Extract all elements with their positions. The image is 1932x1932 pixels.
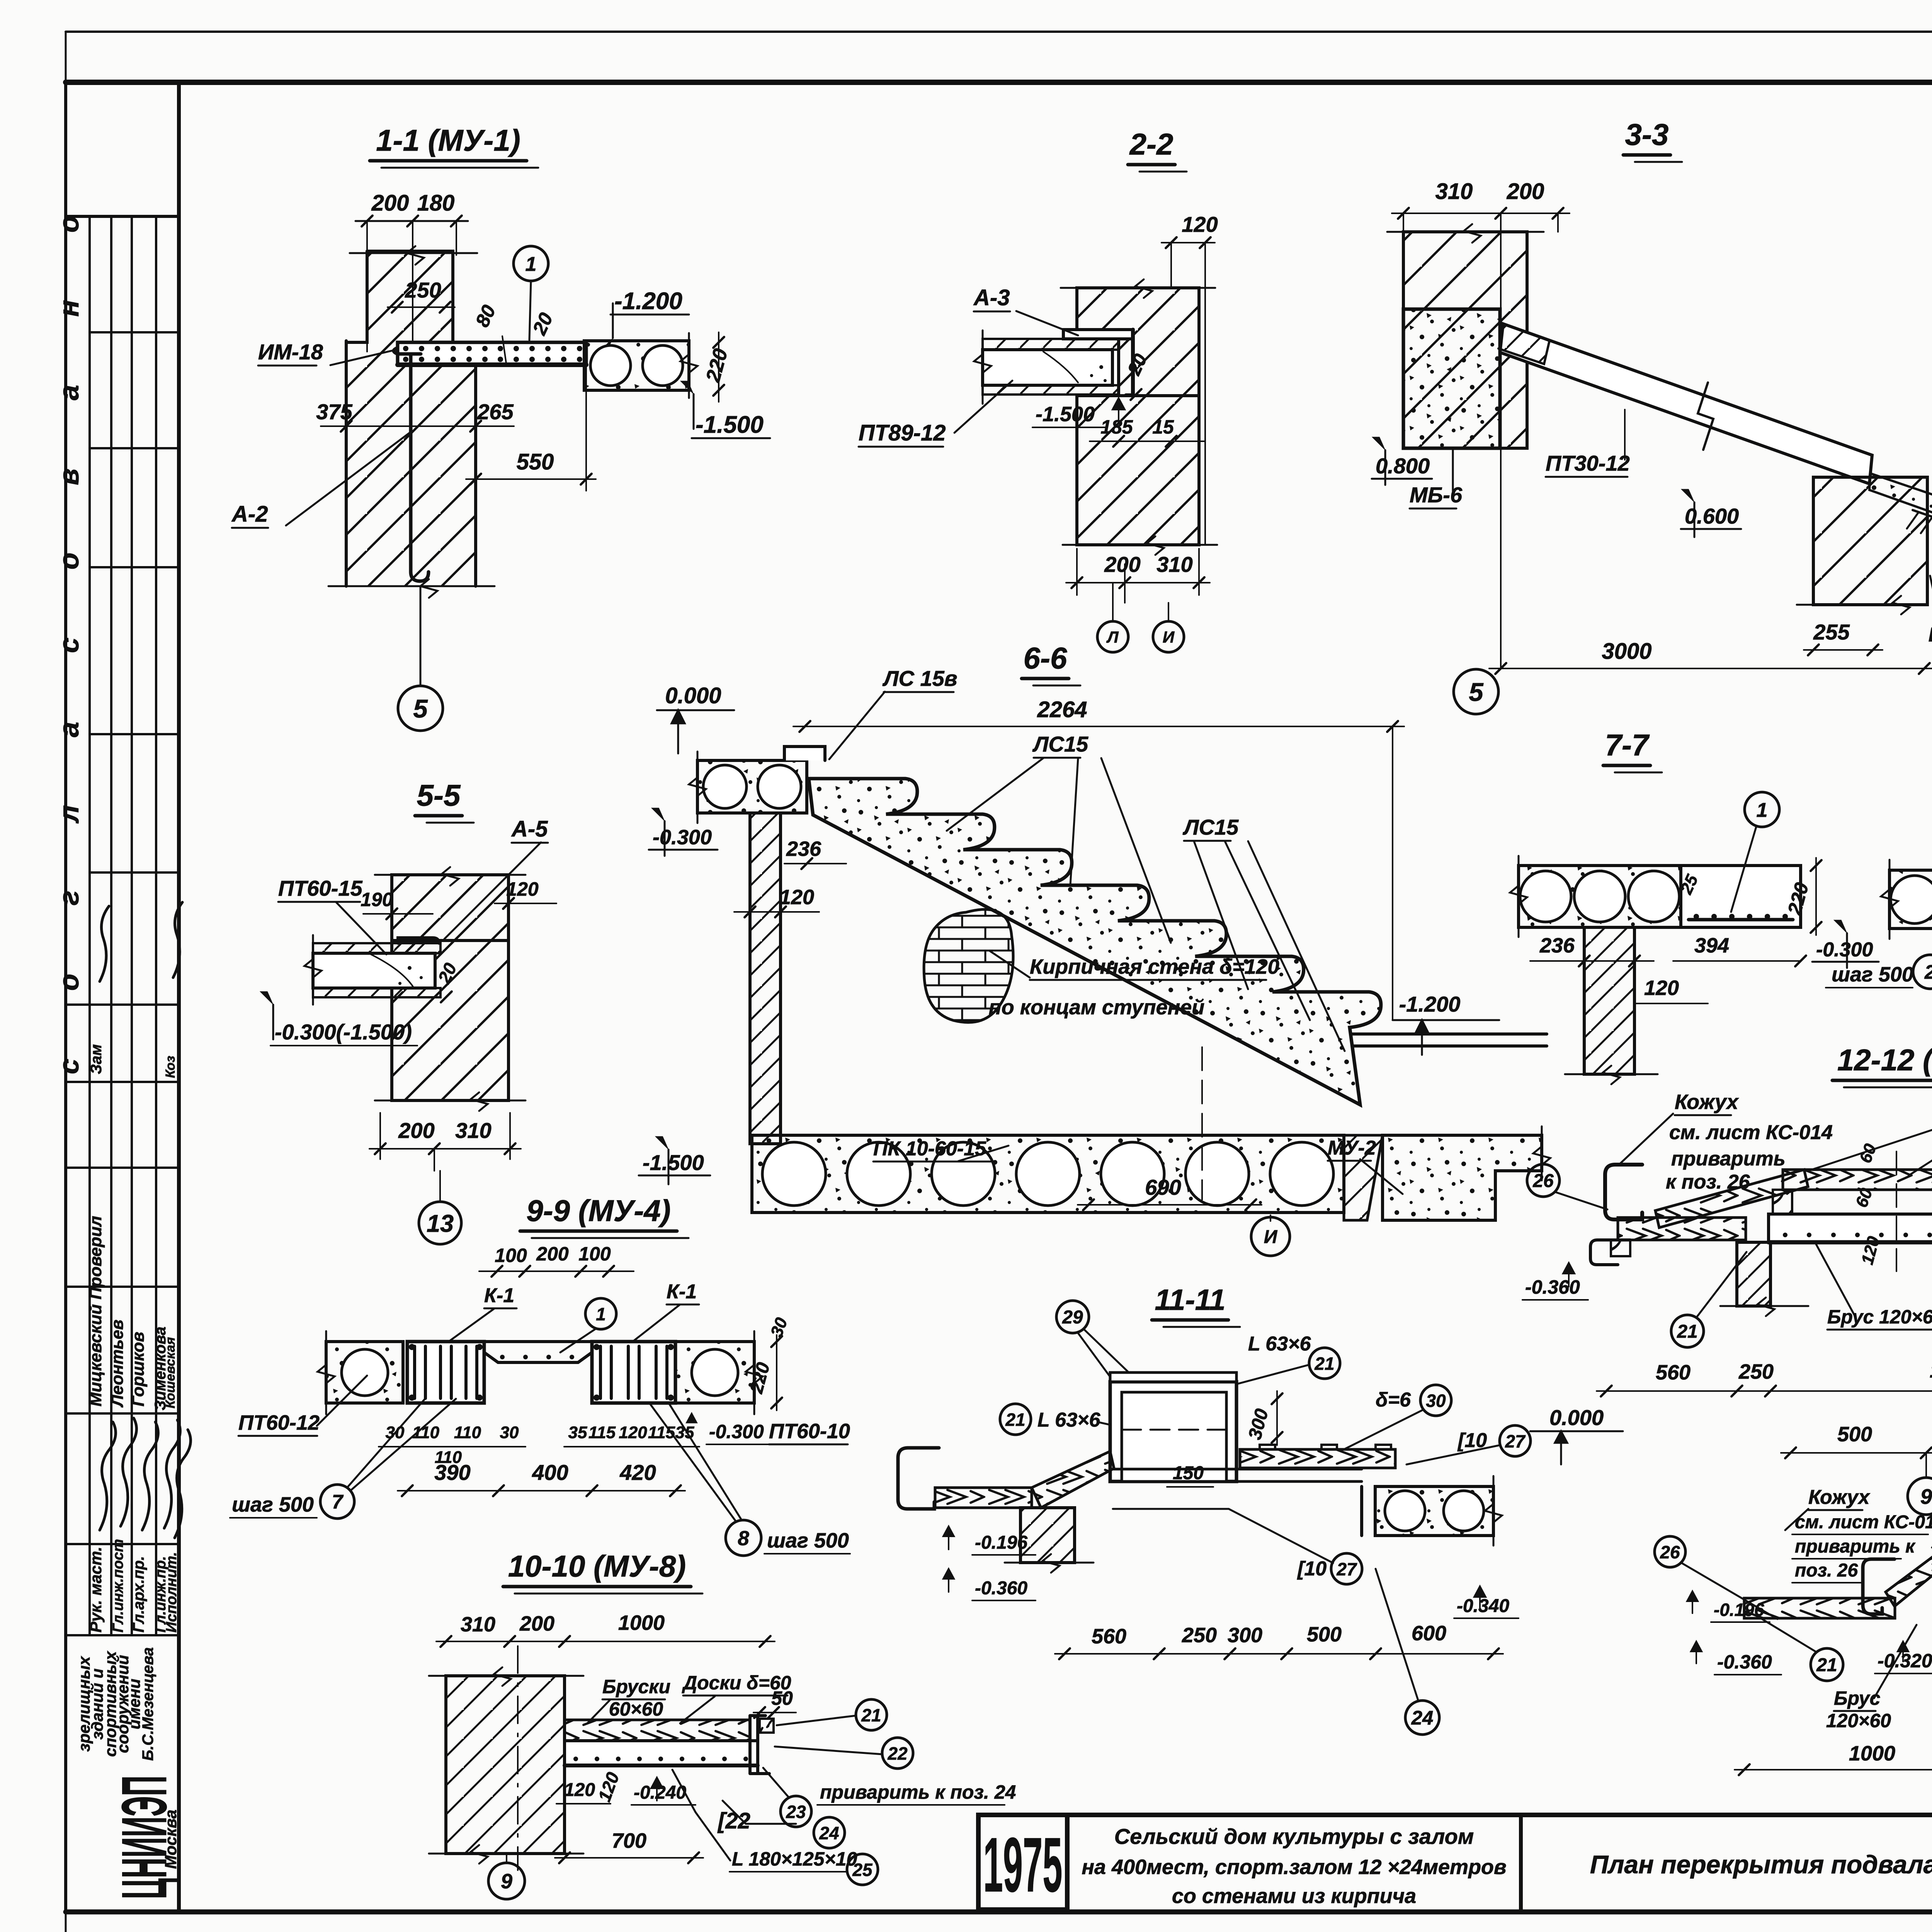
svg-text:265: 265 (477, 400, 514, 424)
svg-text:ПТ60-10: ПТ60-10 (769, 1420, 850, 1443)
svg-text:7: 7 (332, 1491, 344, 1513)
svg-text:о: о (54, 974, 85, 991)
svg-text:Исполнит.: Исполнит. (163, 1552, 180, 1633)
svg-text:550: 550 (517, 449, 554, 474)
title block (978, 1815, 1932, 1932)
section 3-3 ground hatch line (1913, 510, 1932, 591)
svg-text:500: 500 (1307, 1623, 1342, 1646)
svg-text:310: 310 (461, 1613, 495, 1636)
section 12-12 wood blocks under floor (1773, 1190, 1792, 1214)
svg-text:180: 180 (417, 190, 455, 216)
svg-text:1: 1 (596, 1304, 606, 1324)
svg-text:Б.С.Мезенцева: Б.С.Мезенцева (139, 1647, 156, 1761)
svg-text:1400: 1400 (1930, 1359, 1932, 1382)
svg-text:200: 200 (519, 1612, 554, 1635)
svg-text:120: 120 (506, 878, 539, 900)
svg-text:27: 27 (1505, 1431, 1526, 1451)
svg-text:7-7: 7-7 (1605, 728, 1650, 762)
section 9-9 circle 8 shag 500 (726, 1520, 761, 1556)
section 2-2 break at slab left (982, 330, 984, 404)
section 11-11 pos circle 29 (1056, 1301, 1089, 1333)
section 9-9 left hollow slab (326, 1342, 403, 1403)
section 13-13 level -0.196 (1687, 1591, 1698, 1613)
svg-text:ПТ30-12: ПТ30-12 (1546, 451, 1630, 475)
svg-text:а: а (54, 385, 85, 400)
section 1-1 wall bottom break (328, 585, 495, 587)
svg-text:л: л (54, 805, 85, 824)
section 5-5 (260, 778, 556, 1244)
section 3-3 slab break marks (1698, 383, 1713, 450)
section 3-3 lower pier hatched (1813, 477, 1927, 605)
svg-text:со стенами из кирпича: со стенами из кирпича (1172, 1884, 1416, 1908)
section 13-13 pos circle 21 (1811, 1648, 1843, 1681)
section 5-5 level -0.300(-1.500) (260, 992, 273, 1005)
section 11-11 (898, 1284, 1623, 1735)
svg-text:-0.240: -0.240 (634, 1782, 686, 1803)
section 12-12 left lower block and channel (1611, 1240, 1630, 1256)
svg-text:о: о (54, 216, 85, 233)
svg-text:120: 120 (1182, 212, 1218, 236)
svg-text:300: 300 (1228, 1624, 1262, 1647)
svg-text:560: 560 (1656, 1361, 1690, 1384)
svg-text:приварить: приварить (1671, 1148, 1786, 1170)
svg-text:приварить к поз. 24: приварить к поз. 24 (820, 1781, 1016, 1803)
svg-text:600: 600 (1412, 1622, 1446, 1645)
svg-text:А-3: А-3 (973, 285, 1010, 310)
section 1-1 upper wall hatched (346, 251, 476, 366)
section 1-1 hollow core slab right (584, 341, 689, 390)
section 12-12 kozhuh bracket (1605, 1165, 1642, 1219)
svg-text:23: 23 (786, 1802, 806, 1822)
svg-text:3000: 3000 (1602, 639, 1651, 664)
section 7-7 dim 220 rotated (1815, 858, 1817, 935)
svg-text:26: 26 (1532, 1171, 1554, 1191)
svg-text:115: 115 (588, 1423, 616, 1442)
svg-text:190: 190 (361, 889, 393, 910)
section 5-5 cut mark circle 13 (439, 1171, 441, 1202)
svg-text:100: 100 (495, 1245, 527, 1266)
svg-text:-1.500: -1.500 (1036, 403, 1095, 426)
svg-text:г: г (54, 891, 85, 905)
section 5-5 wall hatched lower (392, 940, 509, 1100)
svg-text:6-6: 6-6 (1024, 641, 1067, 675)
svg-text:н: н (54, 300, 85, 317)
svg-text:А-2: А-2 (231, 502, 268, 527)
svg-text:236: 236 (1539, 934, 1575, 957)
svg-text:1-1 (МУ-1): 1-1 (МУ-1) (376, 123, 520, 157)
svg-text:8: 8 (738, 1527, 749, 1550)
svg-text:30: 30 (500, 1423, 519, 1442)
svg-text:ПТ89-12: ПТ89-12 (859, 420, 946, 446)
section 3-3 wall top break (1387, 231, 1544, 233)
section 3-3 level 0.600 (1681, 489, 1694, 502)
svg-text:Зам: Зам (88, 1044, 105, 1074)
svg-text:Кирпичная стена δ=120: Кирпичная стена δ=120 (1030, 955, 1279, 978)
section 3-3 ground slab concrete (1869, 473, 1932, 587)
section 6-6 thin brick wall under landing (750, 813, 781, 1144)
section 11-11 middle slab band (1113, 1469, 1362, 1481)
svg-text:ЛС 15в: ЛС 15в (882, 666, 957, 690)
svg-text:-0.320: -0.320 (1878, 1650, 1932, 1672)
section 2-2 wall bottom break (1063, 544, 1217, 546)
svg-text:22: 22 (887, 1743, 908, 1764)
svg-text:120: 120 (779, 886, 814, 909)
svg-text:1000: 1000 (1849, 1742, 1895, 1765)
section 13-13 sloped board (1886, 1550, 1932, 1606)
svg-text:1975: 1975 (983, 1822, 1063, 1908)
title block year 1975 box (978, 1815, 1067, 1910)
section 5-5 wall bottom break (375, 1100, 526, 1102)
svg-text:1: 1 (1757, 799, 1768, 821)
svg-text:200: 200 (1104, 552, 1140, 577)
section 5-5 slab PT60-15 (313, 943, 440, 953)
section 3-3 cut mark circle 5 (1454, 669, 1498, 714)
svg-text:700: 700 (612, 1829, 646, 1852)
svg-text:см. лист КС-014: см. лист КС-014 (1795, 1512, 1932, 1532)
svg-text:21: 21 (861, 1705, 881, 1725)
svg-text:по концам ступеней: по концам ступеней (989, 996, 1204, 1019)
section 3-3 (1372, 117, 1932, 714)
svg-text:1000: 1000 (618, 1611, 665, 1634)
svg-text:15: 15 (1152, 416, 1174, 438)
svg-text:План перекрытия подвала. Сече: План перекрытия подвала. Сечения 1-1÷13-… (1590, 1850, 1932, 1879)
svg-text:шаг 500: шаг 500 (767, 1529, 849, 1552)
svg-text:200: 200 (398, 1118, 434, 1143)
section 5-5 slab left break (312, 935, 314, 1005)
svg-text:29: 29 (1062, 1307, 1083, 1328)
section 12-12 monolithic slab with rebar (1769, 1214, 1932, 1242)
svg-text:ЛС15: ЛС15 (1032, 732, 1088, 756)
svg-text:ЛС15: ЛС15 (1182, 815, 1239, 839)
svg-text:К-1: К-1 (667, 1281, 697, 1303)
svg-text:0.800: 0.800 (1376, 454, 1430, 478)
svg-text:560: 560 (1092, 1625, 1126, 1648)
svg-text:-0.300: -0.300 (653, 826, 712, 849)
svg-text:24: 24 (819, 1823, 839, 1843)
section 6-6 axis circle I (1201, 1047, 1203, 1200)
section 6-6 level -1.500 (655, 1136, 668, 1150)
svg-text:110: 110 (454, 1423, 481, 1442)
svg-text:310: 310 (455, 1118, 491, 1143)
section 6-6 level -0.300 (651, 808, 665, 821)
svg-text:-0.360: -0.360 (1525, 1276, 1580, 1298)
approval sidebar table (66, 82, 179, 1912)
section 3-3 sloped stair slab PT30-12 (1500, 324, 1872, 484)
section 12-12 level -0.360 (1563, 1263, 1575, 1287)
svg-text:12-12 (МУ-8): 12-12 (МУ-8) (1837, 1043, 1932, 1077)
svg-text:5: 5 (413, 694, 428, 723)
section 9-9 right hollow slab (675, 1342, 754, 1403)
section 8-8 (MU-2) (1826, 704, 1932, 1087)
section 2-2 slab PT89-12 (983, 339, 1119, 350)
svg-text:-0.300(-1.500): -0.300(-1.500) (275, 1020, 412, 1044)
svg-text:200: 200 (1507, 179, 1544, 204)
section 10-10 wall hatched (446, 1676, 565, 1854)
svg-text:-1.500: -1.500 (643, 1150, 704, 1175)
section 12-12 lower floor boards left (1618, 1218, 1746, 1240)
svg-text:21: 21 (1005, 1410, 1025, 1430)
svg-text:2-2: 2-2 (1129, 127, 1173, 161)
svg-text:26: 26 (1660, 1542, 1680, 1562)
section 11-11 floor right (1240, 1449, 1395, 1468)
svg-text:24: 24 (1411, 1707, 1434, 1729)
section 12-12 left support pier hatched (1737, 1242, 1770, 1306)
section 6-6 brick wall blob (924, 910, 1013, 1023)
section 1-1 (MU-1) (231, 123, 770, 731)
section 11-11 level -0.196 -0.360 left (943, 1526, 954, 1549)
svg-text:11-11: 11-11 (1155, 1284, 1225, 1316)
svg-text:0.000: 0.000 (1549, 1405, 1604, 1430)
section 10-10 level -0.240 (651, 1777, 663, 1801)
section 6-6 stringer diagonal (813, 815, 1360, 1105)
svg-text:с: с (54, 638, 85, 653)
section 1-1 anchor bar (394, 348, 429, 581)
svg-text:5: 5 (1469, 678, 1484, 707)
svg-text:шаг 500: шаг 500 (1832, 963, 1913, 986)
section 3-3 level 0.800 (1372, 437, 1385, 450)
section 11-11 level -0.340 (1474, 1586, 1486, 1609)
svg-text:Л: Л (1106, 628, 1119, 646)
svg-text:394: 394 (1694, 934, 1729, 957)
section 2-2 wall top break (1061, 287, 1215, 289)
section 7-7 level -0.300 (1834, 920, 1847, 933)
svg-text:-0.340: -0.340 (1457, 1596, 1509, 1616)
section 7-7 slab right monolithic part (1681, 866, 1801, 927)
section 12-12 sloped board (1655, 1170, 1808, 1228)
svg-text:Леонтьев: Леонтьев (108, 1320, 127, 1408)
section 10-10 pos circles right (856, 1699, 887, 1730)
svg-text:420: 420 (619, 1460, 656, 1485)
section 1-1 wall top break line (350, 252, 477, 254)
section 1-1 cut mark circle 5 (420, 586, 422, 685)
section 13-13 level -0.320 (1898, 1641, 1908, 1662)
section 12-12 cut circle 9 (1925, 1453, 1927, 1477)
svg-text:9: 9 (501, 1870, 512, 1893)
svg-text:-0.360: -0.360 (975, 1578, 1027, 1599)
svg-text:А-5: А-5 (511, 816, 548, 842)
section 8-8 left hollow slab (1889, 870, 1932, 929)
section 9-9 (MU-4) (230, 1194, 850, 1556)
svg-text:МУ-2: МУ-2 (1328, 1137, 1376, 1159)
svg-text:310: 310 (1435, 179, 1473, 204)
section 11-11 left floor and bracket (898, 1448, 939, 1509)
svg-text:Кожух: Кожух (1808, 1486, 1871, 1509)
svg-text:690: 690 (1145, 1175, 1181, 1199)
section 13-13 pos circle 26 (1655, 1536, 1685, 1567)
section 11-11 angle label left (1000, 1404, 1031, 1435)
svg-text:[22: [22 (717, 1808, 750, 1833)
section 7-7 slab left hollow part (1519, 866, 1681, 927)
svg-text:255: 255 (1813, 620, 1850, 644)
section 5-5 wall top break (375, 874, 526, 876)
svg-text:250: 250 (405, 278, 441, 302)
section 2-2 level -1.500 (1112, 398, 1125, 421)
svg-text:Гл.арх.пр.: Гл.арх.пр. (130, 1556, 147, 1633)
section 6-6 top landing hollow slab (697, 760, 807, 813)
section 6-6 bottom step landing at -1.200 (1352, 1034, 1547, 1046)
svg-text:310: 310 (1156, 552, 1192, 577)
section 11-11 right slab with circles (1362, 1486, 1375, 1536)
svg-text:236: 236 (786, 837, 821, 861)
svg-text:И: И (1264, 1227, 1278, 1247)
section 7-7 (1510, 728, 1879, 1084)
svg-text:Кожух: Кожух (1675, 1090, 1739, 1114)
section 2-2 wall hatched upper strip (1077, 288, 1199, 396)
svg-text:Бетонная подготовка: Бетонная подготовка (1929, 624, 1932, 646)
svg-text:200: 200 (536, 1243, 569, 1265)
svg-text:5-5: 5-5 (417, 778, 461, 812)
svg-text:0.000: 0.000 (665, 683, 721, 708)
section 9-9 pos circle 1 (585, 1298, 616, 1329)
section 2-2 axis circles L I (1113, 583, 1168, 621)
svg-text:Бруски: Бруски (602, 1676, 670, 1697)
svg-text:L 63×6: L 63×6 (1248, 1333, 1311, 1355)
svg-text:-1.200: -1.200 (1399, 992, 1461, 1016)
svg-text:120×60: 120×60 (1826, 1710, 1891, 1731)
svg-text:120: 120 (1644, 976, 1679, 1000)
svg-text:9-9 (МУ-4): 9-9 (МУ-4) (526, 1194, 671, 1228)
svg-text:ПК 10-60-15: ПК 10-60-15 (873, 1138, 986, 1160)
svg-text:см. лист КС-014: см. лист КС-014 (1669, 1121, 1833, 1144)
section 13-13 lower floor boards (1744, 1598, 1895, 1618)
svg-text:21: 21 (1314, 1354, 1334, 1374)
section 10-10 right channel and angle (750, 1716, 769, 1774)
section 10-10 monolithic slab with rebar (565, 1741, 758, 1765)
svg-text:250: 250 (1738, 1360, 1774, 1383)
svg-text:-0.300: -0.300 (709, 1421, 764, 1442)
svg-text:Рук. маст.: Рук. маст. (87, 1547, 105, 1633)
svg-text:400: 400 (532, 1460, 568, 1485)
section 2-2 (859, 127, 1218, 652)
svg-text:9: 9 (1920, 1485, 1932, 1509)
svg-text:10-10 (МУ-8): 10-10 (МУ-8) (508, 1549, 686, 1583)
svg-text:-0.360: -0.360 (1717, 1651, 1772, 1673)
section 3-3 concrete beam MB-6 inside wall (1403, 309, 1500, 448)
svg-text:185: 185 (1100, 416, 1133, 438)
svg-text:ПТ60-15: ПТ60-15 (278, 876, 363, 900)
svg-text:δ=6: δ=6 (1376, 1389, 1411, 1411)
section 13-13 (1655, 1442, 1932, 1813)
section 6-6 bottom hollow core slab PK10-60-15 (752, 1135, 1344, 1213)
svg-text:60×60: 60×60 (609, 1698, 663, 1720)
section 12-12 pos circle 26 (1527, 1164, 1560, 1197)
section 9-9 K-1 box left (407, 1342, 484, 1403)
svg-text:ПТ60-12: ПТ60-12 (238, 1411, 320, 1434)
svg-text:в: в (54, 468, 85, 485)
svg-text:L 180×125×10: L 180×125×10 (732, 1848, 857, 1870)
section 1-1 monolithic slab with rebar (398, 342, 586, 365)
section 1-1 level -1.500 (680, 381, 694, 394)
svg-text:шаг 500: шаг 500 (232, 1493, 314, 1516)
section 11-11 hatched pier below left floor (1020, 1508, 1075, 1563)
section 1-1 level -1.200 (600, 338, 613, 351)
svg-text:-0.196: -0.196 (1714, 1600, 1764, 1620)
svg-text:Мицкевский Проверил: Мицкевский Проверил (86, 1216, 105, 1406)
svg-text:-1.500: -1.500 (696, 412, 764, 438)
svg-text:МБ-6: МБ-6 (1410, 483, 1463, 507)
svg-text:13: 13 (427, 1210, 454, 1237)
svg-text:375: 375 (316, 400, 352, 424)
svg-text:390: 390 (434, 1460, 470, 1485)
section 6-6 MU-2 concrete block right (1344, 1135, 1383, 1220)
section 10-10 (MU-8) (429, 1549, 1016, 1899)
svg-text:Гл.инж.пост: Гл.инж.пост (110, 1539, 126, 1633)
svg-text:35: 35 (568, 1423, 587, 1442)
svg-text:2264: 2264 (1037, 697, 1087, 722)
svg-text:27: 27 (1336, 1559, 1357, 1579)
section 6-6 landing top step notch (784, 747, 825, 760)
svg-text:Брус 120×60: Брус 120×60 (1827, 1306, 1932, 1328)
section 3-3 slab upper wedge detail (1498, 324, 1549, 364)
svg-text:21: 21 (1677, 1321, 1697, 1342)
section 6-6 stair steps (809, 779, 1381, 1105)
section 13-13 level -0.360 (1691, 1641, 1702, 1663)
section 12-12 pos circle 21 brus (1671, 1315, 1704, 1347)
svg-text:Горшков: Горшков (129, 1332, 148, 1406)
svg-text:[10: [10 (1297, 1558, 1327, 1580)
inner frame (66, 80, 1932, 85)
svg-text:50: 50 (771, 1687, 793, 1709)
section 11-11 pos circle 24 (1405, 1701, 1439, 1735)
svg-text:-1.200: -1.200 (614, 288, 682, 315)
section 7-7 pos circle 1 (1745, 792, 1779, 827)
section 7-7 wall below (1584, 927, 1634, 1074)
section 6-6 stair (639, 641, 1550, 1256)
svg-text:на 400мест, спорт.залом 12 ×24: на 400мест, спорт.залом 12 ×24метров (1082, 1855, 1506, 1879)
section 12-12 (MU-8) (1522, 1043, 1932, 1515)
svg-text:21: 21 (1816, 1655, 1837, 1675)
svg-text:Коз: Коз (163, 1056, 178, 1078)
svg-text:500: 500 (1837, 1423, 1872, 1446)
section 12-12 upper floor boards (1783, 1170, 1932, 1190)
svg-text:а: а (54, 722, 85, 737)
svg-text:Москва: Москва (162, 1810, 180, 1869)
section 11-11 hatch box (1110, 1382, 1236, 1481)
svg-text:250: 250 (1182, 1624, 1217, 1647)
svg-text:1: 1 (526, 253, 537, 276)
title block project name cell (1519, 1815, 1523, 1912)
svg-text:с: с (54, 1059, 85, 1074)
svg-text:К-1: К-1 (484, 1284, 514, 1307)
svg-text:120: 120 (619, 1423, 647, 1442)
section 3-3 upper wall hatched (1403, 232, 1527, 448)
svg-text:2: 2 (1924, 961, 1932, 983)
svg-text:-0.196: -0.196 (975, 1532, 1027, 1553)
section 9-9 level -0.300 and PT60-10 (686, 1412, 697, 1423)
svg-text:0.600: 0.600 (1685, 504, 1739, 528)
section 7-7 left break (1518, 856, 1520, 937)
sidebar signatures (100, 1422, 116, 1530)
svg-text:30: 30 (1426, 1391, 1446, 1411)
svg-text:-0.300: -0.300 (1816, 939, 1873, 961)
section 13-13 kozhuh bracket (1863, 1559, 1895, 1614)
svg-text:150: 150 (1173, 1463, 1204, 1483)
section 10-10 floor boards (565, 1720, 750, 1741)
svg-text:120: 120 (564, 1780, 595, 1800)
svg-text:100: 100 (578, 1243, 611, 1265)
svg-text:ИМ-18: ИМ-18 (258, 340, 323, 364)
svg-text:Сельский дом культуры с залом: Сельский дом культуры с залом (1114, 1824, 1474, 1849)
section 5-5 slab anchor hook (398, 938, 439, 943)
section 1-1 pos circle 1 (514, 246, 548, 281)
svg-text:L 63×6: L 63×6 (1037, 1409, 1100, 1431)
section 2-2 corner angle A-3 on slab end (1063, 330, 1133, 339)
svg-text:о: о (54, 553, 85, 570)
section 5-5 wall hatched upper (392, 875, 509, 940)
section 9-9 channel drop (484, 1342, 592, 1362)
svg-text:приварить к: приварить к (1795, 1536, 1916, 1557)
svg-text:И: И (1163, 628, 1175, 646)
